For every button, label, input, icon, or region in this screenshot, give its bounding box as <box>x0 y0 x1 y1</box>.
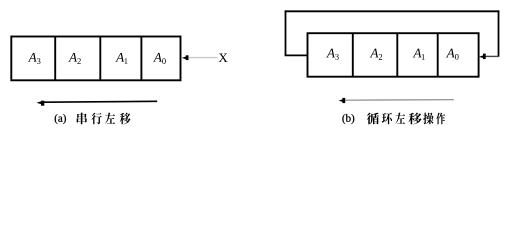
input X arrow shaft <box>188 57 217 59</box>
divider (b) A3|A2 <box>352 33 354 76</box>
label A0 (a) <box>153 53 162 62</box>
caption (a) prefix <box>55 114 66 124</box>
caption (b) char 左 <box>395 113 405 124</box>
divider (b) A2|A1 <box>396 33 398 76</box>
caption (b) char 作 <box>436 113 445 125</box>
shift arrow (b) head <box>339 99 343 102</box>
feedback wire left vertical <box>285 10 287 55</box>
divider (a) A1|A0 <box>140 37 142 81</box>
caption (a) char 移 <box>120 113 131 125</box>
caption (b) char 循 <box>367 113 379 125</box>
register row (b) outline <box>308 33 479 76</box>
register row (a) outline <box>11 37 180 81</box>
caption (b) char 移 <box>408 113 421 125</box>
shift arrow (a) head <box>36 101 41 104</box>
caption (a) char 行 <box>91 113 101 125</box>
shift arrow (a) shaft <box>44 100 157 103</box>
label A3 (b) <box>326 49 335 58</box>
feedback arrow head into A0 <box>479 55 484 58</box>
caption (b) char 操 <box>423 113 433 125</box>
input X arrow head <box>182 56 187 59</box>
label A3 (a) <box>28 53 37 62</box>
label A2 (a) <box>68 53 77 62</box>
feedback wire right vertical <box>498 10 500 56</box>
feedback stub from right vertical <box>485 55 499 57</box>
caption (b) char 环 <box>382 113 392 125</box>
divider (a) A2|A1 <box>99 37 101 81</box>
feedback stub into A3 left <box>285 54 308 56</box>
caption (a) char 串 <box>77 113 87 125</box>
label A0 (b) <box>446 49 455 58</box>
shift arrow (b) shaft <box>345 99 454 102</box>
label A2 (b) <box>370 49 379 58</box>
divider (b) A1|A0 <box>437 33 439 76</box>
feedback wire top horizontal <box>285 10 500 12</box>
label X <box>219 53 228 62</box>
label A1 (a) <box>115 53 124 62</box>
label A1 (b) <box>413 49 422 58</box>
caption (a) char 左 <box>105 113 115 124</box>
divider (a) A3|A2 <box>54 37 56 81</box>
caption (b) prefix <box>342 114 354 124</box>
